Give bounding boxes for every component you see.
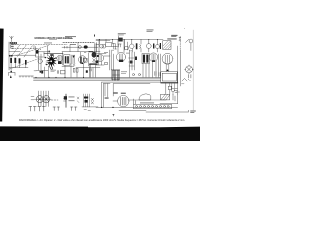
label smudge — [51, 69, 57, 72]
bus junction dots — [35, 77, 36, 78]
antenna coil — [10, 42, 17, 44]
pilot lamp — [189, 39, 193, 43]
gang diagonal shallow — [16, 45, 49, 55]
svg-text:RADIOMARELLI - Art. Riparaz. 2: RADIOMARELLI - Art. Riparaz. 2 - Dati vo… — [19, 118, 185, 122]
speaker box — [161, 72, 178, 83]
wires near variable cap — [36, 46, 63, 56]
double line above hatch box — [168, 37, 177, 40]
tube V1 — [57, 55, 63, 61]
below V6 — [166, 64, 169, 71]
lower-left rail — [9, 67, 28, 69]
tube V4 — [116, 52, 125, 61]
label — [121, 71, 127, 74]
tube socket bottom view B3 — [118, 95, 129, 106]
IF transformer T1 — [64, 55, 70, 66]
tube socket bottom view B2 — [43, 96, 50, 103]
right edge vertical line — [192, 30, 194, 111]
main bus line 3 gray — [34, 79, 161, 81]
junction dots on bottom line — [101, 107, 102, 108]
short rails y51.5 — [9, 51, 20, 53]
component box — [106, 42, 112, 47]
variable capacitor blob — [36, 50, 39, 54]
dashed rail 1 — [12, 44, 67, 46]
mid right cluster — [130, 50, 135, 77]
gang diagonal 3 — [10, 59, 40, 70]
mid horizontals — [62, 67, 100, 68]
paper background — [0, 0, 200, 141]
resistor R1 — [10, 58, 12, 63]
lower link lines — [119, 110, 188, 112]
tube socket bottom view B1 — [36, 96, 43, 103]
small row components — [132, 74, 134, 76]
mid network above rails — [62, 43, 100, 53]
wires below resistors — [11, 63, 26, 71]
left rail y55 — [9, 54, 36, 56]
tube V3 — [96, 54, 104, 62]
wavy outline above trimmer — [139, 94, 151, 100]
junction dot — [10, 71, 12, 73]
main bus line 1 — [34, 76, 161, 78]
socket leads — [39, 91, 49, 107]
IF transformer T2 — [142, 54, 149, 64]
tube V5 — [149, 53, 158, 62]
right section components under rail — [130, 44, 135, 49]
starburst dial lamp — [45, 55, 57, 68]
vertical pair x113-116 — [113, 44, 117, 50]
cathode cluster below V1 — [58, 61, 62, 64]
dotted rail — [63, 42, 95, 44]
antenna — [10, 36, 14, 42]
dark cap top — [118, 38, 122, 42]
speaker leads — [166, 83, 170, 94]
trimmer strip box — [134, 104, 172, 109]
caption small mark — [112, 114, 114, 116]
coupling brackets — [11, 45, 14, 48]
grid components — [88, 53, 90, 66]
socket mid bar — [31, 97, 51, 100]
title second fragment — [49, 38, 57, 41]
text above — [118, 32, 126, 35]
osc coil circle — [38, 59, 42, 63]
tiny dot top right — [183, 27, 186, 30]
osc section verticals — [36, 54, 45, 70]
scan border: left black band — [0, 29, 4, 122]
phono circle with X — [186, 66, 193, 73]
resistor R4 — [25, 60, 27, 65]
comb resistor — [19, 76, 34, 77]
ground wire left — [8, 42, 10, 70]
gang diagonal steep 3 — [24, 45, 33, 57]
below marks — [188, 75, 191, 79]
lower line — [36, 70, 48, 72]
small parts x124-129 — [125, 42, 128, 50]
serif mark — [179, 37, 181, 40]
hatched box right — [163, 41, 171, 50]
drops — [143, 54, 161, 77]
inner verticals — [105, 84, 108, 98]
circle pair — [100, 44, 104, 48]
45v labels — [105, 97, 109, 99]
tube V6 big — [162, 53, 173, 64]
wiring verticals center — [110, 50, 114, 77]
vertical drops to bus — [65, 64, 96, 78]
valvole label — [171, 34, 177, 37]
T pins row — [29, 107, 46, 112]
scan border: bottom black band — [0, 126, 200, 141]
right label text — [147, 29, 154, 32]
output transformer windings — [113, 70, 119, 80]
gang diagonal steep 2 — [18, 45, 27, 57]
gang diagonal steep 1 — [11, 45, 20, 57]
field coil hatched block — [161, 94, 170, 100]
tube V2 — [79, 56, 87, 64]
cap blob — [86, 70, 88, 73]
winding cluster — [72, 55, 75, 64]
power box outline — [102, 82, 161, 107]
top rail right half — [96, 38, 163, 40]
dash link — [51, 99, 58, 101]
main bus line 2 — [34, 78, 161, 80]
left L-element — [9, 73, 15, 76]
resistor R2 — [14, 58, 16, 63]
mid-bottom cluster — [65, 94, 66, 107]
drops from top rail — [100, 36, 158, 44]
dashed vertical — [179, 37, 181, 51]
resistor R3 — [19, 58, 21, 63]
dashed rail 2 — [12, 48, 38, 50]
node dots left — [9, 55, 11, 57]
resistor boxes mid bottom — [73, 68, 75, 72]
